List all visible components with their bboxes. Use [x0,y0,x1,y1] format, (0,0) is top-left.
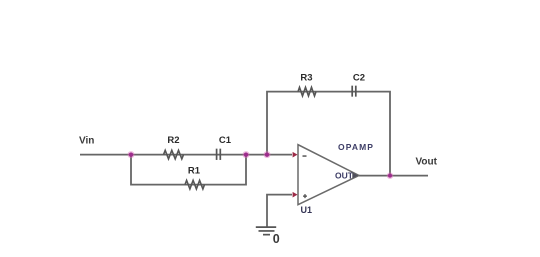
resistor R2 [164,150,184,159]
svg-text:R1: R1 [188,165,201,176]
svg-text:OUT: OUT [335,171,354,181]
svg-text:OPAMP: OPAMP [338,142,374,152]
svg-text:C2: C2 [353,73,365,84]
pin arrow into minus input [293,152,298,158]
pin arrow into plus input [293,192,298,198]
svg-text:Vin: Vin [79,136,94,147]
node junction right of C1 (R1 rejoin) [243,151,250,158]
wire: Vin input horizontal to op-amp minus [80,154,292,156]
op-amp U1 triangle [298,145,359,205]
svg-text:U1: U1 [301,205,313,215]
node junction on input (left of R2/R1 split) [128,151,135,158]
svg-text:R3: R3 [300,73,312,84]
resistor R3 [298,87,316,96]
wire: R1 lower parallel branch [131,155,246,185]
svg-text:C1: C1 [219,135,232,146]
svg-text:Vout: Vout [416,157,438,168]
op-amp U1 plus pin symbol [303,194,307,198]
capacitor C2 [352,86,356,97]
svg-text:R2: R2 [167,135,179,146]
svg-text:0: 0 [273,232,280,246]
wire: op-amp output to Vout [359,175,428,177]
wire: ground riser to plus input [267,195,292,228]
ground symbol 0 [256,227,276,235]
wire: feedback loop top rail [267,92,390,176]
output pin arrow at apex [352,173,358,179]
resistor R1 [185,180,205,189]
capacitor C1 [217,149,221,160]
node junction output/feedback [387,172,394,179]
op-amp U1 minus pin symbol [303,155,307,157]
node junction feedback tap [264,151,271,158]
